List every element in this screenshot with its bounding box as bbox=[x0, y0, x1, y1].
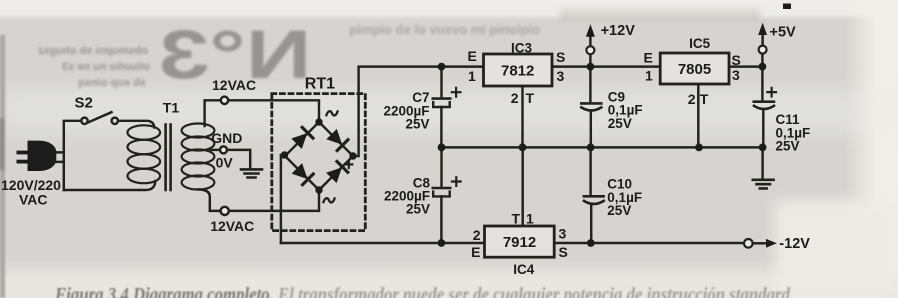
svg-text:S: S bbox=[556, 49, 565, 65]
svg-text:1: 1 bbox=[645, 67, 653, 83]
terminal 12VAC top bbox=[221, 97, 228, 104]
+5V terminal bbox=[761, 54, 763, 67]
mid rail bbox=[442, 146, 763, 148]
svg-text:IC3: IC3 bbox=[511, 41, 533, 56]
core bbox=[166, 125, 171, 191]
svg-text:GND: GND bbox=[211, 130, 242, 146]
svg-text:IC5: IC5 bbox=[689, 36, 711, 51]
svg-text:T: T bbox=[700, 91, 709, 107]
svg-text:E: E bbox=[471, 244, 480, 260]
C7 bbox=[440, 67, 442, 98]
right ground bbox=[761, 147, 763, 178]
wire switch to primary bbox=[118, 121, 154, 128]
center tap GND/0V bbox=[211, 149, 221, 151]
svg-text:T1: T1 bbox=[163, 100, 180, 116]
svg-text:25V: 25V bbox=[405, 116, 429, 131]
wire to bridge top bbox=[228, 100, 319, 121]
ground (center tap) bbox=[241, 169, 262, 177]
-12V terminal bbox=[744, 239, 753, 248]
IC3/IC4 T lead bbox=[521, 86, 524, 226]
label 120V/220 VAC bbox=[1, 177, 61, 207]
diode D4 bbox=[326, 162, 348, 184]
C10 bbox=[589, 147, 591, 195]
svg-text:25V: 25V bbox=[776, 138, 800, 153]
terminal 12VAC bottom bbox=[221, 207, 229, 215]
svg-text:S2: S2 bbox=[75, 95, 93, 112]
scan background shading bbox=[0, 0, 898, 20]
svg-text:E: E bbox=[468, 48, 477, 64]
svg-text:3: 3 bbox=[557, 68, 565, 84]
minus line from left vertex down bbox=[280, 155, 282, 243]
svg-text:IC4: IC4 bbox=[513, 262, 535, 277]
junction dots bbox=[438, 63, 767, 247]
svg-text:S: S bbox=[559, 244, 568, 260]
vertex dots bbox=[315, 118, 322, 125]
svg-text:2: 2 bbox=[688, 91, 696, 107]
diode D2 bbox=[326, 129, 348, 151]
diode D3 bbox=[291, 163, 313, 185]
IC3 7812 bbox=[484, 54, 553, 86]
IC5 T lead bbox=[697, 84, 699, 147]
svg-text:1: 1 bbox=[468, 68, 476, 84]
svg-text:1: 1 bbox=[526, 211, 534, 227]
svg-text:25V: 25V bbox=[607, 203, 631, 218]
AC plug bbox=[17, 141, 64, 171]
IC4 7912 bbox=[485, 226, 555, 257]
svg-text:T: T bbox=[511, 211, 520, 227]
+ rail from bridge bbox=[353, 67, 484, 156]
+12V terminal bbox=[589, 54, 591, 66]
svg-text:2: 2 bbox=[473, 227, 481, 243]
C9 bbox=[589, 67, 591, 103]
secondary coil bbox=[182, 124, 215, 190]
svg-text:3: 3 bbox=[732, 67, 740, 83]
svg-text:T: T bbox=[526, 90, 535, 106]
svg-text:3: 3 bbox=[559, 226, 567, 242]
svg-text:otiuotio nu ne s3: otiuotio nu ne s3 bbox=[62, 61, 150, 73]
svg-text:oiqioniq im ovsuv ol sb oiqmiq: oiqioniq im ovsuv ol sb oiqmiq bbox=[349, 22, 540, 37]
secondary bottom lead bbox=[198, 189, 220, 211]
svg-text:0V: 0V bbox=[216, 155, 234, 171]
svg-text:+12V: +12V bbox=[601, 23, 636, 39]
secondary top lead bbox=[205, 100, 221, 126]
svg-text:VAC: VAC bbox=[19, 191, 48, 207]
svg-text:obsmupni sb ohugsz: obsmupni sb ohugsz bbox=[38, 45, 148, 57]
wire primary bottom bbox=[64, 181, 156, 190]
svg-text:Figura 3.4 Diagrama completo.: Figura 3.4 Diagrama completo. El transfo… bbox=[54, 285, 790, 298]
IC5 7805 bbox=[660, 53, 729, 84]
wire to bridge bottom bbox=[229, 189, 319, 211]
svg-text:7805: 7805 bbox=[678, 61, 711, 78]
C11 bbox=[761, 67, 763, 101]
svg-text:S: S bbox=[732, 52, 741, 68]
diode D1 bbox=[291, 127, 313, 149]
~ marks bbox=[326, 111, 337, 115]
svg-text:E: E bbox=[644, 50, 653, 66]
svg-text:+5V: +5V bbox=[770, 25, 797, 41]
bottom rail bbox=[281, 242, 744, 244]
svg-text:12VAC: 12VAC bbox=[210, 218, 254, 234]
C8 bbox=[440, 147, 442, 187]
svg-text:sb eup oinsq: sb eup oinsq bbox=[78, 77, 146, 89]
svg-text:25V: 25V bbox=[406, 202, 430, 217]
wire plug trunk bbox=[64, 121, 82, 190]
svg-text:-12V: -12V bbox=[779, 236, 810, 252]
svg-text:2: 2 bbox=[511, 90, 519, 106]
svg-text:7912: 7912 bbox=[503, 234, 536, 251]
ghost bleed-through text (mirrored page behind) bbox=[38, 17, 540, 94]
diamond bbox=[285, 122, 353, 190]
switch S2 bbox=[81, 112, 118, 124]
stray scan dot bbox=[783, 4, 791, 10]
primary coil bbox=[128, 125, 161, 183]
svg-text:25V: 25V bbox=[608, 116, 632, 131]
svg-text:7812: 7812 bbox=[501, 63, 534, 80]
+ mark bridge bbox=[345, 161, 352, 168]
rail IC5 out bbox=[729, 65, 762, 67]
svg-text:12VAC: 12VAC bbox=[212, 77, 256, 93]
rail IC3 out bbox=[552, 65, 660, 67]
svg-text:RT1: RT1 bbox=[305, 76, 335, 93]
bridge rectifier RT1 dashed box bbox=[272, 94, 366, 231]
